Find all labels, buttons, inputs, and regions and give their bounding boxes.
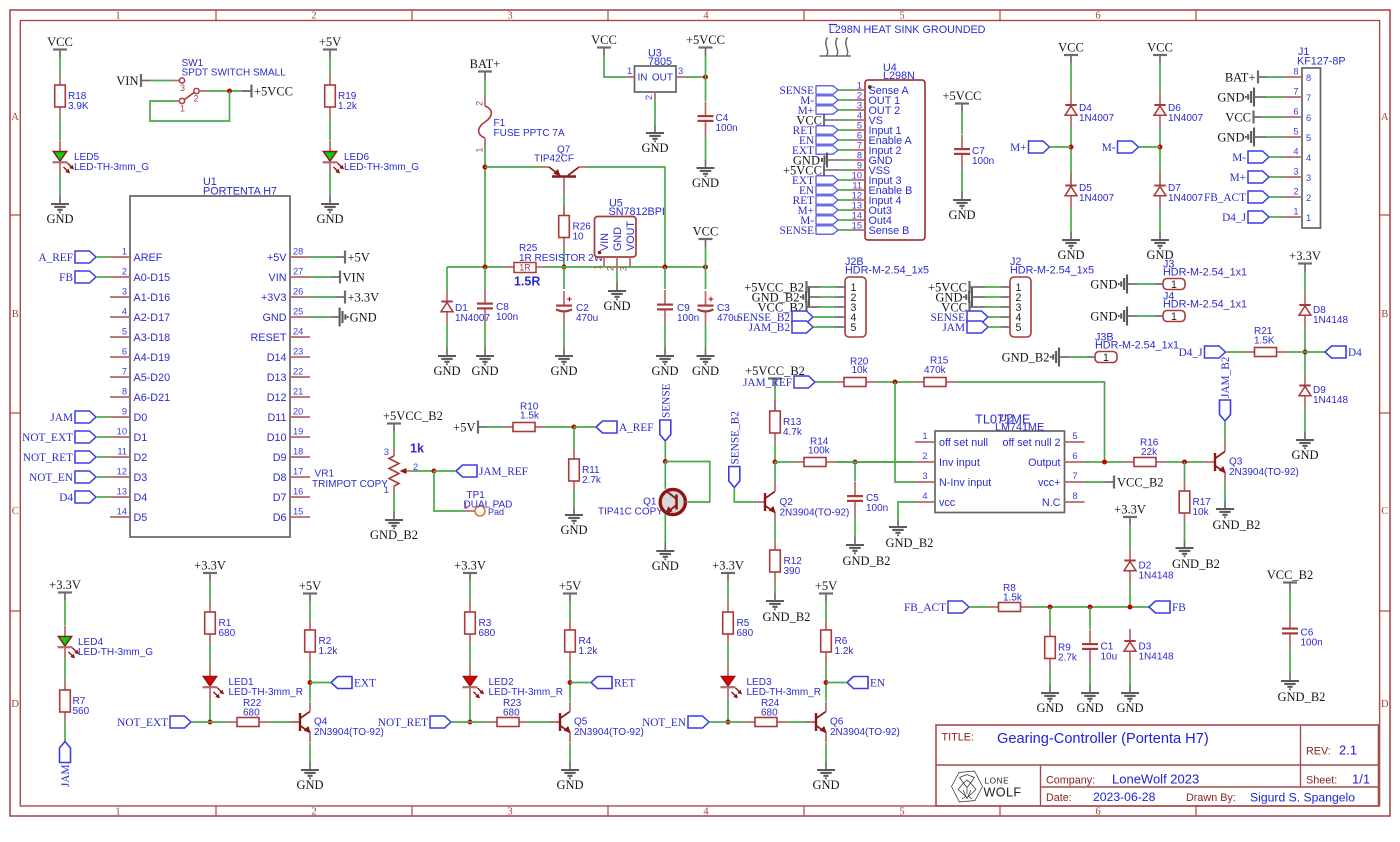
capacitor C6 bbox=[1289, 614, 1291, 628]
svg-text:17: 17 bbox=[293, 467, 303, 477]
J1 pin 6 bbox=[1284, 116, 1302, 118]
ground below U3 bbox=[654, 125, 656, 133]
svg-text:Sense B: Sense B bbox=[869, 225, 910, 237]
svg-text:A3-D18: A3-D18 bbox=[134, 332, 171, 344]
svg-text:2.7k: 2.7k bbox=[1058, 653, 1078, 664]
svg-text:Q5: Q5 bbox=[574, 717, 588, 728]
label A_REF at U1 pin 1 bbox=[75, 251, 96, 263]
svg-text:D4: D4 bbox=[59, 492, 73, 504]
label JAM_B2 at Q3 collector bbox=[1220, 400, 1231, 421]
svg-text:TIP41C COPY: TIP41C COPY bbox=[598, 507, 663, 518]
svg-text:28: 28 bbox=[293, 247, 303, 257]
wire vcc+ to VCC_B2 bbox=[1085, 481, 1106, 483]
J2 pin 1 bbox=[1001, 286, 1010, 288]
U1 pin 12 D3 bbox=[110, 476, 130, 478]
wire U1 pin 27 to VIN bbox=[310, 276, 331, 278]
label M- at U4 pin 14 bbox=[816, 216, 838, 224]
svg-text:RESET: RESET bbox=[251, 332, 287, 344]
svg-text:A0-D15: A0-D15 bbox=[134, 272, 171, 284]
label JAM_REF at VR1 bbox=[456, 465, 477, 477]
svg-text:22: 22 bbox=[293, 367, 303, 377]
svg-text:+3.3V: +3.3V bbox=[1289, 249, 1321, 263]
U1 pin 13 D4 bbox=[110, 496, 130, 498]
LED LED1 bbox=[209, 665, 211, 676]
svg-text:+5V: +5V bbox=[453, 421, 475, 435]
wire VR1 to GND_B2 bbox=[393, 494, 395, 512]
diode D4 bbox=[1070, 93, 1072, 105]
op-amp U2 TL071ME body bbox=[935, 431, 1065, 513]
svg-text:Company:: Company: bbox=[1046, 775, 1095, 787]
label JAM below R7 bbox=[60, 742, 71, 763]
ground at J1 pin 5 bbox=[1253, 128, 1255, 147]
wire F1 to rail junction bbox=[484, 147, 486, 267]
label EN bbox=[847, 677, 868, 689]
junction rail at F1 column bbox=[483, 265, 488, 270]
svg-text:OUT: OUT bbox=[652, 73, 673, 84]
svg-text:+: + bbox=[708, 294, 714, 305]
svg-text:EN: EN bbox=[870, 678, 885, 690]
ground at J1 pin 7 bbox=[1253, 88, 1255, 107]
wire +3.3V to LED4 bbox=[64, 601, 66, 626]
svg-text:vcc: vcc bbox=[939, 497, 956, 509]
resistor R19 bbox=[329, 75, 331, 85]
svg-text:5: 5 bbox=[1306, 133, 1311, 143]
wire JAM_B2 to Q3 collector bbox=[1224, 421, 1226, 442]
resistor R8 bbox=[989, 606, 999, 608]
svg-text:+: + bbox=[567, 294, 573, 305]
power +5VCC_B2 above R13 bbox=[768, 377, 782, 379]
U1 pin 10 D1 bbox=[110, 436, 130, 438]
svg-text:JAM: JAM bbox=[60, 765, 72, 788]
resistor R15 bbox=[914, 381, 924, 383]
wire LED6 to GND bbox=[329, 174, 331, 197]
wire LED4 to R7 bbox=[64, 659, 66, 681]
diode D5 bbox=[1070, 174, 1072, 186]
junction at JAM_REF / TP1 bbox=[432, 469, 437, 474]
wire R15 to op-amp output column bbox=[956, 382, 1105, 462]
svg-text:8: 8 bbox=[1072, 491, 1077, 501]
label NOT_RET at U1 pin 11 bbox=[75, 451, 96, 463]
svg-text:2: 2 bbox=[122, 267, 127, 277]
svg-text:6: 6 bbox=[1293, 107, 1298, 117]
svg-text:3: 3 bbox=[922, 471, 927, 481]
wire LED3 to base junction bbox=[727, 699, 729, 723]
svg-text:470k: 470k bbox=[924, 365, 947, 376]
svg-text:27: 27 bbox=[293, 267, 303, 277]
svg-text:LED-TH-3mm_G: LED-TH-3mm_G bbox=[74, 162, 149, 173]
svg-text:VIN: VIN bbox=[343, 271, 365, 285]
connector J3 HDR-M-2.54_1x1 bbox=[1163, 279, 1185, 290]
J3 pin 1 wire bbox=[1155, 283, 1163, 285]
svg-text:JAM_REF: JAM_REF bbox=[479, 466, 528, 478]
J1 pin 4 bbox=[1284, 156, 1302, 158]
U4 pin 7 Input 2 bbox=[852, 149, 865, 151]
label M+ at D4/D5 bbox=[1029, 141, 1050, 153]
connector J3B HDR-M-2.54_1x1 bbox=[1095, 352, 1117, 363]
svg-text:M+: M+ bbox=[1010, 142, 1026, 154]
svg-text:5: 5 bbox=[857, 121, 862, 131]
svg-text:GND: GND bbox=[550, 364, 577, 378]
transistor Q4 2N3904 bbox=[290, 721, 300, 723]
svg-text:+5V: +5V bbox=[559, 579, 581, 593]
svg-text:GND: GND bbox=[471, 364, 498, 378]
J2 pin 5 bbox=[1001, 326, 1010, 328]
resistor R13 bbox=[774, 401, 776, 411]
svg-text:JAM: JAM bbox=[50, 412, 73, 424]
svg-text:WOLF: WOLF bbox=[984, 786, 1022, 800]
svg-text:100n: 100n bbox=[1301, 638, 1323, 649]
J2B pin 2 bbox=[836, 296, 845, 298]
resistor R10 bbox=[503, 426, 513, 428]
junction at F1 / Q7 emitter bbox=[483, 165, 488, 170]
wire D5 to GND bbox=[1070, 208, 1072, 233]
junction at M- D6/D7 bbox=[1158, 145, 1163, 150]
svg-text:Q3: Q3 bbox=[1229, 457, 1243, 468]
J2 pin 4 bbox=[1001, 316, 1010, 318]
svg-text:680: 680 bbox=[503, 708, 520, 719]
svg-text:D2: D2 bbox=[134, 452, 148, 464]
svg-text:GND: GND bbox=[350, 311, 377, 325]
resistor R5 bbox=[727, 602, 729, 612]
power +5VCC_B2 above VR1 bbox=[387, 422, 401, 424]
svg-text:2: 2 bbox=[606, 266, 616, 271]
svg-text:1N4148: 1N4148 bbox=[1139, 652, 1174, 663]
svg-text:14: 14 bbox=[852, 211, 862, 221]
svg-text:+5VCC_B2: +5VCC_B2 bbox=[383, 409, 443, 423]
svg-text:GND: GND bbox=[948, 208, 975, 222]
power +5V at R10 bbox=[477, 421, 479, 434]
resistor R11 bbox=[573, 449, 575, 459]
power +3.3V above R1 bbox=[203, 572, 217, 574]
svg-text:1.5R: 1.5R bbox=[514, 275, 540, 289]
svg-text:4: 4 bbox=[703, 806, 709, 817]
U4 pin 13 Out3 bbox=[852, 209, 865, 211]
svg-text:SN7812BPI: SN7812BPI bbox=[609, 206, 665, 218]
svg-text:1.2k: 1.2k bbox=[835, 646, 855, 657]
svg-text:off set null 2: off set null 2 bbox=[1002, 437, 1060, 449]
LED LED5 bbox=[59, 141, 61, 152]
J1 pin 5 bbox=[1284, 136, 1302, 138]
svg-text:+5VCC: +5VCC bbox=[942, 89, 981, 103]
U1 pin 28 +5V bbox=[290, 256, 310, 258]
svg-text:3: 3 bbox=[180, 83, 185, 93]
svg-text:TRIMPOT COPY: TRIMPOT COPY bbox=[312, 479, 388, 490]
power +3.3V above D2 bbox=[1123, 516, 1137, 518]
label SENSE_B2 at J2B pin 4 bbox=[792, 311, 813, 323]
svg-text:3.9K: 3.9K bbox=[68, 101, 89, 112]
svg-text:4: 4 bbox=[1306, 153, 1311, 163]
ground GND_B2 at J3B bbox=[1059, 356, 1069, 358]
label NOT_EXT at U1 pin 10 bbox=[75, 431, 96, 443]
U1 pin 8 A6-D21 bbox=[110, 396, 130, 398]
ground GND at J2 pin 2 bbox=[971, 288, 973, 307]
label RET at U4 pin 12 bbox=[816, 196, 838, 204]
J1 pin 8 bbox=[1284, 76, 1302, 78]
J4 pin 1 wire bbox=[1155, 315, 1163, 317]
svg-text:D6: D6 bbox=[273, 512, 287, 524]
svg-text:1: 1 bbox=[475, 148, 485, 153]
svg-text:6: 6 bbox=[857, 131, 862, 141]
svg-text:11: 11 bbox=[852, 181, 862, 191]
junction at R9 bbox=[1048, 605, 1053, 610]
svg-text:B: B bbox=[12, 309, 19, 320]
svg-text:1: 1 bbox=[1171, 311, 1177, 323]
U1 pin 23 D14 bbox=[290, 356, 310, 358]
svg-text:7: 7 bbox=[1293, 87, 1298, 97]
wire R7 to JAM bbox=[64, 722, 66, 742]
ground GND_B2 below R17 bbox=[1184, 540, 1186, 548]
svg-text:D: D bbox=[1381, 699, 1389, 710]
junction at RET bbox=[568, 680, 573, 685]
U1 pin 15 D6 bbox=[290, 516, 310, 518]
svg-text:GND_B2: GND_B2 bbox=[1278, 690, 1326, 704]
wire +5VCC_B2 to R13 bbox=[774, 387, 776, 412]
wire R11 to GND bbox=[573, 491, 575, 507]
svg-text:VR1: VR1 bbox=[315, 469, 335, 480]
svg-text:FUSE PPTC 7A: FUSE PPTC 7A bbox=[494, 128, 565, 139]
wire R10 to A_REF junction bbox=[545, 426, 574, 428]
J2 pin 3 bbox=[1001, 306, 1010, 308]
svg-text:7: 7 bbox=[1072, 471, 1077, 481]
U1 pin 16 D7 bbox=[290, 496, 310, 498]
svg-text:NOT_EN: NOT_EN bbox=[29, 472, 73, 484]
J2 pin 2 bbox=[1001, 296, 1010, 298]
wire +5V to R4 bbox=[569, 602, 571, 621]
svg-text:7: 7 bbox=[122, 367, 127, 377]
svg-text:GND: GND bbox=[296, 778, 323, 792]
svg-text:10k: 10k bbox=[852, 365, 869, 376]
resistor R1 bbox=[209, 602, 211, 612]
junction at Q1 collector loop bbox=[663, 459, 668, 464]
svg-text:+3V3: +3V3 bbox=[261, 292, 287, 304]
label NOT_EXT bbox=[170, 716, 191, 728]
wire R24 to Q6 base bbox=[787, 721, 816, 723]
wire +3.3V to D8 bbox=[1304, 272, 1306, 294]
resistor R9 bbox=[1049, 607, 1051, 627]
ground GND at J4 bbox=[1127, 315, 1137, 317]
svg-text:VIN: VIN bbox=[599, 233, 611, 251]
svg-text:vcc+: vcc+ bbox=[1038, 477, 1061, 489]
svg-text:A4-D19: A4-D19 bbox=[134, 352, 171, 364]
svg-text:5: 5 bbox=[1293, 127, 1298, 137]
label SENSE_B2 at Q2 base bbox=[729, 467, 740, 488]
junction at +5VCC switch output bbox=[227, 89, 232, 94]
svg-text:680: 680 bbox=[243, 708, 260, 719]
ground GND_B2 below R12 bbox=[774, 593, 776, 601]
U4 pin 14 Out4 bbox=[852, 219, 865, 221]
svg-text:D4: D4 bbox=[134, 492, 148, 504]
wire loop SW1 pin 1 bbox=[175, 100, 180, 102]
title block frame bbox=[936, 725, 1379, 806]
svg-text:TIP42CF: TIP42CF bbox=[534, 154, 574, 165]
svg-text:3: 3 bbox=[507, 806, 512, 817]
ground GND_B2 at J2B pin 2 bbox=[808, 288, 810, 307]
svg-text:B: B bbox=[1381, 309, 1388, 320]
capacitor C1 bbox=[1089, 607, 1091, 629]
svg-text:7805: 7805 bbox=[648, 56, 672, 68]
svg-text:GND: GND bbox=[652, 559, 679, 573]
power VCC above C3 bbox=[699, 238, 713, 240]
capacitor C3 470u bbox=[705, 267, 707, 289]
LED LED6 bbox=[329, 141, 331, 152]
svg-text:D4_J: D4_J bbox=[1222, 212, 1246, 224]
label EXT bbox=[331, 677, 352, 689]
svg-text:1: 1 bbox=[1103, 352, 1109, 364]
wire D4 to M+ junction bbox=[1070, 127, 1072, 186]
label JAM at J2 pin 5 bbox=[967, 321, 988, 333]
wire junction to Q7 emitter bbox=[485, 166, 542, 168]
svg-text:A: A bbox=[11, 112, 19, 123]
junction rail at VCC/C3 bbox=[703, 265, 708, 270]
svg-text:LED-TH-3mm_G: LED-TH-3mm_G bbox=[78, 647, 153, 658]
svg-text:D3: D3 bbox=[134, 472, 148, 484]
svg-text:GND: GND bbox=[651, 364, 678, 378]
svg-text:2N3904(TO-92): 2N3904(TO-92) bbox=[1229, 467, 1299, 478]
svg-text:FB: FB bbox=[1172, 602, 1186, 614]
U1 pin 19 D10 bbox=[290, 436, 310, 438]
wire N-Inv input from R20 junction bbox=[895, 382, 915, 482]
U5 pin 3 stub bbox=[629, 257, 631, 267]
svg-text:100n: 100n bbox=[677, 313, 699, 324]
ground below D5 bbox=[1070, 232, 1072, 240]
power VIN bbox=[140, 74, 142, 87]
svg-text:D12: D12 bbox=[267, 392, 287, 404]
ground GND_B2 below C6 bbox=[1289, 673, 1291, 681]
svg-text:GND_B2: GND_B2 bbox=[886, 536, 934, 550]
diode D9 bbox=[1304, 374, 1306, 386]
svg-text:KF127-8P: KF127-8P bbox=[1297, 56, 1346, 68]
svg-text:680: 680 bbox=[761, 708, 778, 719]
label D4_J at R21 bbox=[1205, 346, 1226, 358]
wire junction to R24 bbox=[728, 721, 745, 723]
capacitor C9 bbox=[664, 267, 666, 289]
label EXT at U4 pin 10 bbox=[816, 176, 838, 184]
transistor Q3 2N3904 bbox=[1205, 461, 1215, 463]
label SENSE at J2 pin 4 bbox=[967, 311, 988, 323]
svg-text:+5VCC: +5VCC bbox=[254, 85, 293, 99]
svg-text:1N4148: 1N4148 bbox=[1313, 315, 1348, 326]
svg-text:L298N: L298N bbox=[883, 70, 915, 82]
wire R23 to Q5 base bbox=[529, 721, 560, 723]
ground below C8 bbox=[484, 348, 486, 356]
J1 pin 2 bbox=[1284, 196, 1302, 198]
capacitor C7 bbox=[961, 135, 963, 149]
U5 pin 2 to ground bbox=[616, 257, 618, 271]
svg-text:Date:: Date: bbox=[1046, 792, 1072, 804]
svg-text:7: 7 bbox=[857, 141, 862, 151]
wire +5V to R6 bbox=[825, 602, 827, 621]
wire R16 to Q3 base bbox=[1166, 461, 1205, 463]
wire Q6 emitter to GND bbox=[825, 743, 827, 763]
resistor R26 bbox=[563, 206, 565, 216]
svg-text:HDR-M-2.54_1x1: HDR-M-2.54_1x1 bbox=[1163, 267, 1247, 279]
wire +3.3V to D2 bbox=[1129, 525, 1131, 549]
U1 pin 21 D12 bbox=[290, 396, 310, 398]
svg-text:4: 4 bbox=[922, 491, 927, 501]
wire R12 to GND_B2 bbox=[774, 582, 776, 593]
J2B pin 1 bbox=[836, 286, 845, 288]
svg-text:1N4148: 1N4148 bbox=[1313, 395, 1348, 406]
svg-text:D4_J: D4_J bbox=[1179, 347, 1203, 359]
wire R13 to junction bbox=[774, 443, 776, 462]
svg-text:3: 3 bbox=[857, 101, 862, 111]
U1 pin 7 A5-D20 bbox=[110, 376, 130, 378]
diode D1 bbox=[446, 267, 448, 290]
svg-text:10k: 10k bbox=[1193, 507, 1210, 518]
resistor R25 1R bbox=[504, 266, 514, 268]
diode D2 bbox=[1129, 549, 1131, 561]
wire U3 pin 3 to +5VCC junction bbox=[685, 76, 706, 78]
svg-text:1.2k: 1.2k bbox=[579, 646, 599, 657]
svg-text:GND: GND bbox=[263, 312, 287, 324]
svg-text:GND: GND bbox=[433, 364, 460, 378]
ground below R11 bbox=[573, 507, 575, 515]
junction at EXT bbox=[308, 680, 313, 685]
resistor R7 bbox=[64, 680, 66, 690]
transistor Q2 2N3904 bbox=[755, 501, 765, 503]
svg-text:A6-D21: A6-D21 bbox=[134, 392, 171, 404]
svg-text:VCC: VCC bbox=[1147, 41, 1173, 55]
svg-text:AREF: AREF bbox=[134, 252, 163, 264]
svg-text:1k: 1k bbox=[410, 442, 424, 456]
U3 pin 2 to ground bbox=[654, 92, 656, 99]
svg-text:16: 16 bbox=[293, 487, 303, 497]
power VCC above D6 bbox=[1153, 54, 1167, 56]
wire R19 to LED6 bbox=[329, 117, 331, 140]
label FB_ACT at R8 bbox=[948, 601, 969, 613]
power +5V above R2 bbox=[303, 592, 317, 594]
power +3.3V above LED4 bbox=[58, 591, 72, 593]
svg-text:12: 12 bbox=[117, 467, 127, 477]
svg-text:JAM_B2: JAM_B2 bbox=[1220, 356, 1232, 398]
svg-text:9: 9 bbox=[857, 161, 862, 171]
svg-text:10: 10 bbox=[117, 427, 127, 437]
U4 pin 4 VS bbox=[852, 119, 865, 121]
U1 pin 27 VIN bbox=[290, 276, 310, 278]
resistor R22 bbox=[227, 721, 237, 723]
power VCC_B2 at U2 pin 7 bbox=[1105, 481, 1114, 483]
svg-text:M-: M- bbox=[1232, 152, 1246, 164]
svg-text:1: 1 bbox=[122, 247, 127, 257]
wire +5VCC_B2 to VR1 bbox=[393, 432, 395, 449]
svg-text:13: 13 bbox=[852, 201, 862, 211]
svg-text:VIN: VIN bbox=[116, 74, 138, 88]
VR1 wiper arrow bbox=[405, 470, 412, 472]
junction rail at C9 bbox=[663, 265, 668, 270]
svg-text:Sigurd S. Spangelo: Sigurd S. Spangelo bbox=[1250, 791, 1355, 805]
wire +3.3V to R5 bbox=[727, 581, 729, 602]
ground below LED6 bbox=[329, 196, 331, 204]
junction at C1 bbox=[1088, 605, 1093, 610]
svg-text:L298N HEAT SINK GROUNDED: L298N HEAT SINK GROUNDED bbox=[829, 24, 986, 36]
svg-text:D7: D7 bbox=[273, 492, 287, 504]
svg-text:6: 6 bbox=[122, 347, 127, 357]
svg-text:+3.3V: +3.3V bbox=[194, 559, 226, 573]
U2 pin 7 vcc+ bbox=[1065, 481, 1085, 483]
junction at D4 row bbox=[1303, 350, 1308, 355]
junction at R17 bbox=[1182, 460, 1187, 465]
svg-text:14: 14 bbox=[117, 507, 127, 517]
power +5VCC above C4 bbox=[699, 46, 713, 48]
svg-text:SPDT SWITCH SMALL: SPDT SWITCH SMALL bbox=[182, 68, 287, 79]
wire junction to TP1 bbox=[434, 471, 464, 511]
svg-text:Sheet:: Sheet: bbox=[1306, 775, 1337, 787]
U2 pin 3 N-Inv input bbox=[915, 481, 935, 483]
power BAT+ at J1 pin 8 bbox=[1257, 71, 1259, 84]
label M- at D6/D7 bbox=[1118, 141, 1139, 153]
svg-text:GND: GND bbox=[556, 778, 583, 792]
wire junction to R22 bbox=[210, 721, 227, 723]
